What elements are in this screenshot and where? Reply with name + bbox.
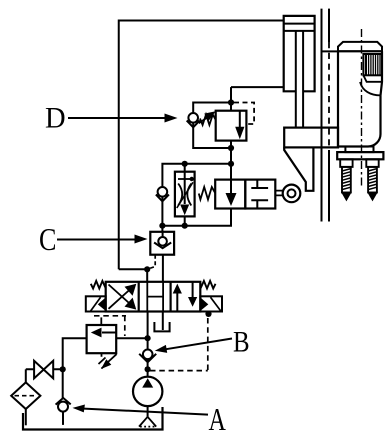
wire: P line from valve to pump (147, 312, 149, 350)
left spring (91, 281, 106, 289)
dashed drain line under valve left end (94, 315, 126, 317)
internal down arrow (226, 180, 237, 206)
flow control valve body (175, 172, 195, 217)
machine column (two vertical lines) (322, 9, 330, 222)
node: flow control branch junction (228, 161, 234, 167)
node: relief branch (145, 335, 151, 341)
drill bit left (340, 159, 352, 200)
tank box (23, 407, 163, 430)
node: flow valve top (182, 161, 188, 167)
wire: down to filter (25, 369, 27, 382)
wire: relief outlet to left line (63, 338, 87, 398)
check valve C poppet and seat (154, 232, 171, 248)
check valve (flow control bypass) (156, 187, 169, 201)
check valve (D bypass) (187, 113, 200, 127)
motor body (360, 82, 381, 95)
middle position lines (147, 282, 163, 312)
wire: cylinder port down to valve D (230, 87, 232, 111)
valve D adjustment arrow (199, 111, 216, 123)
motor collar under fins (363, 75, 382, 82)
relief internal arrow (91, 328, 116, 338)
right position arrows (173, 282, 198, 312)
node: bottom flow valve junction (182, 223, 188, 229)
relief valve body (87, 325, 117, 353)
motor cooling fins (363, 54, 382, 75)
hydraulic cylinder barrel (284, 16, 315, 91)
bracket hook (dog) (284, 147, 313, 190)
motor cap (338, 42, 382, 51)
suction strainer (139, 417, 156, 427)
node: below right solenoid (205, 311, 211, 317)
motor dash-dot centerline (361, 29, 363, 188)
C pilot dashed stub (149, 255, 156, 269)
wire from bottom line down to C (161, 226, 163, 232)
node: valve D outlet junction (228, 145, 234, 151)
wire to bowtie (26, 368, 63, 370)
shutoff valve (bowtie) (34, 361, 53, 379)
check valve A (56, 398, 71, 425)
relief spring strokes (99, 353, 109, 368)
slide block (284, 128, 338, 148)
dashed pilot line bottom horizontal (150, 370, 208, 372)
check valve bypass wire (left loop) (193, 103, 231, 149)
filter stem (25, 409, 27, 425)
spring (199, 187, 215, 200)
wire: valve D outlet down (230, 141, 232, 180)
node: bottom-left junction (159, 223, 165, 229)
tank stubs under valve (154, 312, 169, 332)
piston rod (double line) (296, 31, 303, 128)
node: valve D inlet junction (228, 99, 234, 105)
dashed pilot line right side vertical (207, 318, 209, 371)
valve D pilot dashed line (234, 103, 254, 125)
spindle flange (337, 152, 383, 159)
relief adjustment arrow (101, 354, 117, 369)
flow control internal: throttle arcs (178, 184, 191, 206)
machine column hidden edge (dashed behind head) (328, 42, 330, 150)
cylinder bottom port wire (231, 86, 284, 88)
wire: relief inlet (116, 337, 147, 339)
node: below check B (145, 366, 151, 372)
flow control internal: flow line + arrow (180, 164, 189, 226)
valve D internal flow arrow (235, 111, 244, 140)
right spring (201, 281, 216, 289)
node: pilot junction (144, 266, 150, 272)
body left square (through position) (215, 180, 245, 209)
pump (133, 369, 162, 417)
wire: left long line corner to valve (119, 269, 147, 282)
body (106, 282, 201, 312)
left solenoid (86, 296, 106, 311)
roller stem (275, 191, 282, 196)
flow control internal: compensator bar (178, 177, 194, 181)
drill bit right (366, 159, 378, 200)
spindle neck (345, 147, 373, 153)
leader arrow from D to check valve (68, 114, 178, 123)
roller (283, 185, 301, 203)
wire: bottom line of flow control assembly (162, 209, 231, 226)
dashed drain line down to relief inlet (124, 316, 126, 336)
right solenoid (200, 296, 222, 311)
body right square (blocked position) (245, 180, 275, 209)
svg-text:C: C (39, 221, 56, 257)
leader arrow from A to check valve A (73, 405, 209, 415)
left position crossed arrows (109, 284, 137, 310)
leader arrow from C to check valve C (57, 235, 148, 244)
wire: branch to flow control (162, 164, 231, 226)
check valve B (139, 350, 156, 370)
filter diamond (11, 382, 40, 409)
flow control internal: adjustment diagonal (177, 182, 193, 208)
blocked port symbols (251, 180, 268, 209)
leader arrow from B to check valve B (155, 339, 232, 353)
svg-text:D: D (45, 102, 66, 134)
check valve C body (150, 232, 174, 255)
valve D spring (200, 115, 216, 126)
sequence valve D body (216, 111, 247, 141)
svg-text:A: A (209, 401, 226, 437)
wire: C outlet down to directional valve port A (162, 255, 164, 282)
wire: top line from left vertical to cylinder (119, 21, 284, 270)
motor clamp line (322, 50, 339, 52)
relief vent stub (100, 317, 102, 325)
svg-text:B: B (233, 326, 250, 359)
node: bowtie junction (60, 366, 66, 372)
